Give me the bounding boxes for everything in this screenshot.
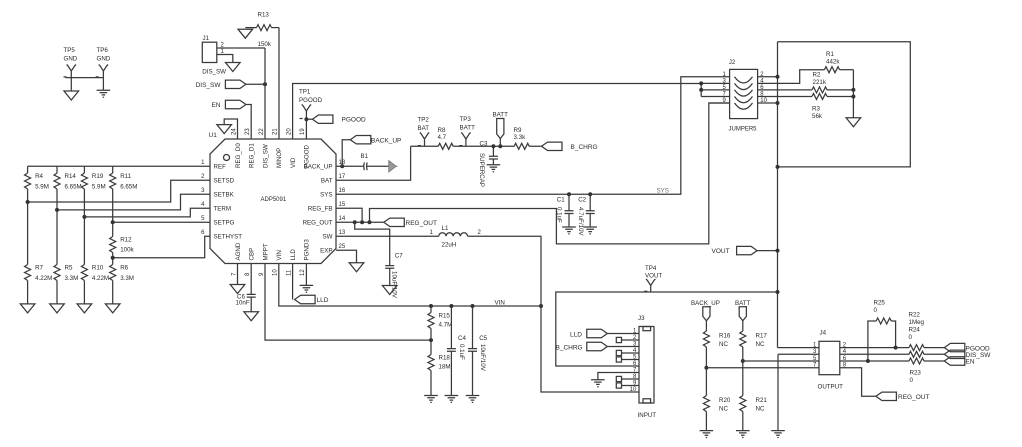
svg-text:REG_OUT: REG_OUT [898, 394, 929, 401]
wire B_CHRG tag to J3 pin 3 [607, 346, 639, 348]
resistor R22 1Meg [909, 312, 945, 351]
node C4 junction [449, 304, 453, 308]
ground [20, 304, 35, 313]
ground [445, 396, 459, 403]
svg-text:BAT: BAT [418, 125, 430, 132]
svg-text:J1: J1 [203, 35, 210, 42]
svg-text:13: 13 [339, 230, 346, 236]
net label DIS_SW at output [944, 350, 991, 359]
TP3 pin1 tick [459, 145, 462, 147]
svg-text:PGOOD: PGOOD [342, 117, 367, 124]
wire DIS_SW tag to U1 pin 22 [246, 83, 265, 85]
svg-text:CBP: CBP [249, 248, 256, 261]
wire TP6 to ground [102, 78, 104, 91]
svg-text:BATT: BATT [735, 300, 751, 307]
U1 top pin names (rotated) and numbers [231, 128, 310, 168]
test point TP5 GND [64, 47, 78, 78]
ground [244, 312, 259, 321]
TP2 pin1 tick [418, 145, 421, 147]
wire SYS net U1 pin 16 to J2 [336, 77, 730, 195]
svg-text:R6: R6 [120, 265, 128, 272]
svg-text:NC: NC [719, 341, 728, 348]
ground [771, 431, 785, 438]
node R15 junctions [429, 304, 433, 342]
wire battery row [411, 145, 542, 147]
svg-text:VOUT: VOUT [712, 248, 730, 255]
wire TERM pin 4 to R19/R10 junction [84, 208, 210, 217]
svg-text:NC: NC [756, 406, 765, 413]
wire B1 to ground [367, 165, 389, 167]
svg-text:C4: C4 [458, 335, 466, 342]
svg-text:J4: J4 [820, 330, 827, 337]
ground [382, 286, 397, 295]
test point TP3 BATT [460, 116, 476, 146]
U1 left pins 1-6 names and numbers [201, 160, 242, 241]
wire J2 pin 9 stub [709, 102, 730, 104]
net label PGOOD at output [944, 343, 990, 352]
svg-text:R5: R5 [65, 265, 73, 272]
svg-text:DIS_SW: DIS_SW [202, 69, 226, 76]
svg-text:R1: R1 [826, 51, 834, 58]
resistor R2 221k [758, 72, 854, 93]
power flag BATT [735, 300, 751, 331]
test point TP6 GND [97, 47, 111, 78]
resistor R20 NC [703, 368, 731, 431]
wire SETHYST pin 6 to R12/R6 junction [113, 236, 210, 257]
node R25 junctions [866, 346, 898, 363]
svg-text:R11: R11 [120, 173, 131, 180]
svg-text:R21: R21 [756, 397, 768, 404]
power flag BATT [493, 112, 509, 147]
svg-text:C2: C2 [578, 197, 586, 204]
wire L1 to VIN net and J3 pin 10 [468, 236, 639, 392]
svg-text:3.3M: 3.3M [120, 275, 134, 282]
power flag BACK_UP [691, 300, 720, 331]
svg-text:C1: C1 [557, 197, 565, 204]
wire SETBK pin 3 to R14/R5 junction [57, 194, 210, 210]
J2 pin numbers [722, 72, 767, 104]
svg-text:AGND: AGND [235, 242, 242, 260]
ground [736, 431, 750, 438]
svg-text:ADP5091: ADP5091 [261, 197, 287, 203]
svg-text:22uH: 22uH [442, 242, 457, 249]
wire R1/R2/R3 common to ground [852, 70, 854, 118]
svg-text:1Meg: 1Meg [909, 319, 925, 326]
node VID junctions at J2 [699, 81, 703, 92]
resistor R17 NC [740, 331, 768, 361]
wire U1 pin 25 EXP to ground [336, 250, 357, 262]
no-connect J3 pin 9 [616, 383, 639, 388]
resistor R1 442k [825, 51, 854, 73]
svg-text:21: 21 [273, 128, 279, 135]
svg-text:GND: GND [64, 56, 78, 63]
wire U1 pin 19 PGOOD to TP1 [305, 111, 307, 139]
wire select net loop [778, 42, 911, 167]
node select net junctions [776, 75, 780, 169]
svg-text:REG_D1: REG_D1 [249, 143, 256, 168]
wire BACK_UP tag to pin 18 [342, 140, 350, 167]
net label EN [211, 100, 245, 109]
svg-text:R25: R25 [874, 300, 886, 307]
svg-text:16: 16 [339, 188, 346, 194]
wire J3 pin 7 to ground [598, 373, 639, 380]
svg-text:5.9M: 5.9M [35, 184, 49, 191]
svg-text:R2: R2 [813, 72, 821, 79]
inductor L1 22uH [430, 225, 482, 249]
svg-text:NC: NC [719, 406, 728, 413]
svg-text:R19: R19 [92, 173, 104, 180]
net label REG_OUT at output [876, 392, 930, 401]
wire U1 pin 17 BAT to battery row [336, 146, 411, 180]
resistor R12 100k [110, 222, 135, 257]
ground [226, 63, 241, 72]
svg-text:4.22M: 4.22M [92, 275, 109, 282]
TP1 pin1 tick [300, 118, 303, 120]
resistor R7 4.22M [25, 202, 53, 304]
svg-text:NC: NC [756, 341, 765, 348]
svg-text:PGOOD: PGOOD [304, 144, 311, 168]
wire R17 to J4 pin 5 [743, 360, 819, 362]
ground [466, 396, 480, 403]
svg-text:R12: R12 [120, 237, 132, 244]
resistor R9 3.3k [514, 127, 530, 149]
svg-text:BAT: BAT [321, 178, 333, 185]
node C1 junction [567, 192, 571, 196]
wire J2 pin 10 to select net [758, 102, 778, 104]
wire U1 pin 11 to LLD tag [292, 264, 294, 300]
svg-text:14: 14 [339, 216, 346, 222]
svg-text:REG_OUT: REG_OUT [303, 220, 333, 227]
svg-text:R24: R24 [909, 327, 921, 334]
wire REG_FB net U1 pin 15 to J2 pin 9 [336, 103, 730, 244]
svg-text:EN: EN [966, 359, 975, 366]
node PGOOD junction [304, 117, 308, 121]
svg-text:REF: REF [214, 164, 227, 171]
svg-text:LLD: LLD [570, 331, 582, 338]
svg-text:15: 15 [339, 202, 346, 208]
svg-text:12: 12 [300, 269, 306, 276]
resistor R25 0 bridge [868, 300, 896, 362]
test point TP1 PGOOD [299, 89, 323, 112]
svg-text:GND: GND [97, 56, 111, 63]
U1 right pin names and numbers [303, 160, 346, 255]
svg-text:BATT: BATT [493, 112, 509, 119]
ground [105, 304, 120, 313]
ground [238, 29, 253, 38]
svg-text:150k: 150k [258, 41, 272, 48]
svg-text:SYS: SYS [657, 188, 669, 195]
svg-text:REG_D0: REG_D0 [235, 143, 242, 168]
J4 pin numbers [813, 342, 847, 368]
net label VOUT [712, 246, 758, 255]
svg-text:MINOP: MINOP [276, 148, 283, 168]
resistor R19 5.9M [81, 166, 105, 217]
svg-text:R13: R13 [258, 12, 270, 19]
node DIS_SW junction [263, 82, 267, 86]
wire U1 pin 24 REG_D0 to ground [224, 119, 237, 139]
svg-text:0: 0 [874, 307, 878, 314]
svg-text:22: 22 [259, 128, 265, 135]
svg-text:SETSD: SETSD [214, 178, 235, 185]
svg-text:TERM: TERM [214, 206, 232, 213]
svg-text:SETHYST: SETHYST [214, 234, 243, 241]
svg-text:24: 24 [231, 128, 237, 135]
ground [349, 263, 364, 272]
wire VID net U1 pin 20 to J2 [293, 84, 702, 140]
svg-text:INPUT: INPUT [638, 412, 657, 419]
wire J1 pin 1 to ground [217, 55, 233, 63]
svg-text:BACK_UP: BACK_UP [691, 300, 720, 307]
ground [583, 227, 597, 234]
svg-text:4.7: 4.7 [438, 134, 447, 141]
svg-text:TP2: TP2 [418, 117, 430, 124]
no-connect J3 pin 5 [616, 357, 639, 362]
net label LLD [295, 295, 329, 304]
node R16 junction [704, 366, 708, 370]
svg-text:R15: R15 [439, 313, 451, 320]
net label B_CHRG [542, 142, 598, 151]
ground [64, 91, 79, 100]
wire SETPG pin 5 to R11/R12 junction [113, 221, 210, 223]
resistor R18 18M [428, 340, 451, 395]
svg-text:19: 19 [300, 128, 306, 135]
no-connect J3 pin 2 [616, 337, 639, 342]
no-connect J3 pin 4 [616, 350, 639, 355]
capacitor C7 10uF/10V [385, 253, 403, 299]
svg-text:C3: C3 [480, 141, 488, 148]
svg-text:10: 10 [273, 269, 279, 276]
svg-text:10: 10 [630, 387, 637, 393]
svg-text:TP6: TP6 [97, 47, 109, 54]
ground [230, 285, 245, 294]
node C2 junction [588, 192, 592, 196]
svg-text:11: 11 [286, 269, 292, 276]
svg-text:J3: J3 [638, 315, 645, 322]
svg-text:OUTPUT: OUTPUT [818, 383, 844, 390]
ground [487, 165, 501, 172]
connector J1 [202, 35, 226, 76]
U1 bottom pin names (rotated) and numbers [231, 239, 310, 276]
svg-text:R4: R4 [35, 173, 43, 180]
svg-text:0.1uF: 0.1uF [458, 344, 465, 360]
svg-text:20: 20 [286, 128, 292, 135]
wire R13 to U1 pin 21 MINOP [278, 28, 280, 139]
connector J4 OUTPUT [818, 330, 844, 391]
svg-text:10nF: 10nF [236, 300, 250, 307]
resistor R14 6.65M [54, 166, 82, 210]
svg-text:BATT: BATT [460, 125, 476, 132]
test point TP4 VOUT [645, 265, 662, 292]
node C5 junction [471, 304, 475, 308]
TP5 pin1 tick [64, 76, 67, 78]
svg-text:JUMPER5: JUMPER5 [729, 127, 758, 133]
battery B1 [361, 153, 369, 170]
wire SETSD pin 2 to R4/R7 junction [28, 180, 210, 202]
ground [217, 125, 232, 134]
wire U1 pin 7 AGND to ground [237, 264, 239, 285]
wire J2 pins 3,5,7 to VID net [701, 83, 729, 96]
resistor R5 3.3M [54, 210, 78, 304]
resistor R8 4.7 [438, 127, 454, 149]
svg-text:R3: R3 [812, 106, 820, 113]
node VOUT row junction [776, 290, 780, 294]
resistor R4 5.9M [25, 166, 49, 202]
resistor R23 0 [840, 358, 945, 384]
resistor R24 0 [840, 327, 945, 358]
net label B_CHRG at J3 pin 3 [556, 342, 608, 351]
capacitor C5 10uF/10V [468, 306, 488, 396]
node C3 junction [491, 144, 495, 148]
svg-text:VOUT: VOUT [645, 272, 662, 279]
ground [846, 118, 861, 127]
svg-text:BACK_UP: BACK_UP [371, 137, 401, 144]
svg-text:5.9M: 5.9M [92, 184, 106, 191]
connector J2 JUMPER5 [729, 59, 758, 133]
node R2 R3 junctions [851, 88, 855, 99]
ground [50, 304, 65, 313]
svg-text:442k: 442k [826, 59, 840, 66]
wire REG_OUT net U1 pin 14 [336, 221, 384, 223]
svg-text:C5: C5 [479, 335, 487, 342]
wire U1 pin 12 PGND3 to ground [305, 264, 307, 286]
svg-text:TP4: TP4 [645, 265, 657, 272]
svg-text:PGOOD: PGOOD [299, 97, 323, 104]
node R17 junction [741, 359, 745, 363]
wire select net to J4 pin 1 [778, 347, 820, 349]
wire J2 pin 4 to R1 [758, 70, 825, 84]
svg-text:U1: U1 [209, 132, 218, 139]
svg-text:VID: VID [290, 157, 297, 168]
net label REG_OUT [384, 218, 437, 227]
wire J4 pin 2 to R22 [840, 347, 909, 349]
ground [77, 304, 92, 313]
capacitor C3 SUPERCAP [478, 141, 498, 188]
test point TP2 BAT [418, 117, 430, 147]
svg-text:B_CHRG: B_CHRG [556, 345, 583, 352]
wire R16 to J4 pin 7 [706, 367, 819, 369]
wire REG_OUT to C7 [355, 222, 390, 265]
svg-text:DIS_SW: DIS_SW [262, 144, 269, 168]
svg-text:C7: C7 [395, 253, 403, 260]
net label EN at output [944, 357, 975, 366]
svg-text:REG_FB: REG_FB [308, 206, 333, 213]
resistor R15 4.7M [428, 306, 452, 340]
wire VOUT tag to select net [757, 250, 777, 252]
ground [700, 431, 714, 438]
svg-text:L1: L1 [442, 225, 449, 232]
svg-text:0: 0 [910, 377, 914, 384]
svg-text:EN: EN [211, 102, 220, 109]
IC U1 ADP5091 body [209, 132, 337, 264]
net label DIS_SW [196, 80, 246, 89]
resistor R10 4.22M [81, 217, 109, 304]
svg-text:221k: 221k [813, 79, 827, 86]
svg-text:23: 23 [245, 128, 251, 135]
svg-text:VIN: VIN [495, 299, 505, 306]
svg-text:R7: R7 [35, 265, 43, 272]
svg-text:3.3k: 3.3k [514, 134, 527, 141]
svg-text:SYS: SYS [320, 192, 332, 199]
wire J4 pin 3 to ground [778, 354, 819, 430]
svg-text:25: 25 [339, 244, 346, 250]
svg-text:R17: R17 [756, 333, 768, 340]
svg-text:REG_OUT: REG_OUT [406, 220, 437, 227]
wire U1 pin 18 to battery B1 [336, 165, 364, 167]
TP6 pin1 tick [96, 76, 99, 78]
svg-text:17: 17 [339, 174, 346, 180]
ground [562, 227, 576, 234]
wire J2 pin 2 to select net [758, 76, 778, 78]
node VOUT junction [776, 249, 780, 253]
resistor R11 6.65M [110, 166, 138, 222]
svg-text:B1: B1 [361, 153, 369, 160]
svg-text:J2: J2 [729, 59, 736, 66]
svg-text:3.3M: 3.3M [65, 275, 79, 282]
svg-text:SW: SW [323, 234, 333, 241]
wire DIS_SW vertical to U1 pin 22 [264, 48, 266, 139]
wire TP5 to ground [70, 78, 72, 91]
node REG_OUT junctions [353, 220, 372, 224]
resistor R16 NC [703, 331, 731, 368]
wire MPPT net U1 pin 9 to divider [265, 264, 431, 341]
svg-text:4.7uF/10V: 4.7uF/10V [577, 207, 584, 236]
svg-text:4.7M: 4.7M [439, 322, 453, 329]
node BATT junction [498, 144, 502, 148]
svg-text:MPPT: MPPT [262, 243, 269, 260]
wire J1 pin 2 to DIS_SW net [217, 47, 265, 49]
svg-text:R22: R22 [909, 312, 921, 319]
wire EN tag to U1 pin 23 [246, 105, 251, 140]
no-connect J3 pin 8 [616, 376, 639, 381]
svg-text:DIS_SW: DIS_SW [196, 82, 222, 89]
svg-text:R10: R10 [92, 265, 104, 272]
ground [300, 285, 314, 292]
capacitor C2 4.7uF/10V [577, 194, 595, 236]
J3 pin numbers 1-10 [630, 329, 637, 394]
svg-text:10uF/10V: 10uF/10V [391, 271, 398, 299]
capacitor C4 0.1uF [447, 306, 467, 396]
svg-text:B_CHRG: B_CHRG [571, 144, 598, 151]
net label PGOOD [312, 115, 366, 124]
ground [424, 396, 438, 403]
svg-text:LLD: LLD [317, 297, 329, 304]
svg-text:100k: 100k [120, 247, 134, 254]
svg-text:0: 0 [909, 334, 913, 341]
svg-text:SETBK: SETBK [214, 192, 235, 199]
wire VOUT row to J3 pin 6 [556, 292, 778, 366]
ground (rotated) [389, 161, 398, 172]
wire select net vertical [777, 42, 779, 348]
ground [591, 380, 605, 387]
svg-text:10uF/10V: 10uF/10V [479, 344, 486, 372]
svg-text:SUPERCAP: SUPERCAP [478, 153, 485, 187]
wire PGOOD tag stub [306, 118, 312, 120]
svg-text:VIN: VIN [276, 250, 283, 260]
net label LLD at J3 pin 1 [570, 329, 607, 338]
svg-text:TP5: TP5 [64, 47, 76, 54]
connector J3 INPUT [638, 315, 657, 419]
svg-text:6.65M: 6.65M [120, 184, 137, 191]
svg-text:R14: R14 [65, 173, 77, 180]
wire SW net U1 pin 13 to L1 [336, 235, 439, 237]
svg-text:LLD: LLD [290, 249, 297, 261]
svg-text:R20: R20 [719, 397, 731, 404]
svg-text:18M: 18M [439, 364, 451, 371]
svg-text:EXP: EXP [320, 248, 332, 255]
resistor R13 150k [245, 12, 279, 49]
wire VIN net U1 pin 10 [279, 264, 541, 307]
svg-text:R18: R18 [439, 355, 451, 362]
